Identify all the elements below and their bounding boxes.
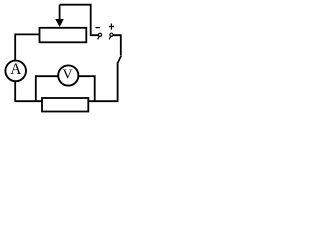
wire switch top to battery plus — [113, 35, 121, 55]
label plus — [109, 24, 114, 30]
rheostat R — [40, 28, 87, 43]
svg-text:A: A — [10, 61, 22, 78]
battery terminal plus post — [109, 33, 113, 39]
wire rheostat left terminal to ammeter top — [15, 34, 39, 60]
wire top from slider to battery minus — [60, 5, 99, 36]
voltmeter V — [58, 65, 78, 85]
ammeter A — [5, 61, 26, 82]
wire voltmeter right branch — [79, 76, 95, 101]
svg-text:V: V — [62, 68, 72, 83]
wire resistor right to switch bottom — [88, 62, 117, 101]
resistor R1 — [42, 98, 88, 112]
label minus — [96, 27, 100, 29]
wire voltmeter left branch — [36, 76, 58, 101]
battery terminal minus post — [98, 33, 102, 39]
rheostat slider arrow — [55, 5, 64, 27]
wire ammeter bottom to resistor left — [15, 81, 42, 101]
switch S blade — [118, 56, 121, 63]
